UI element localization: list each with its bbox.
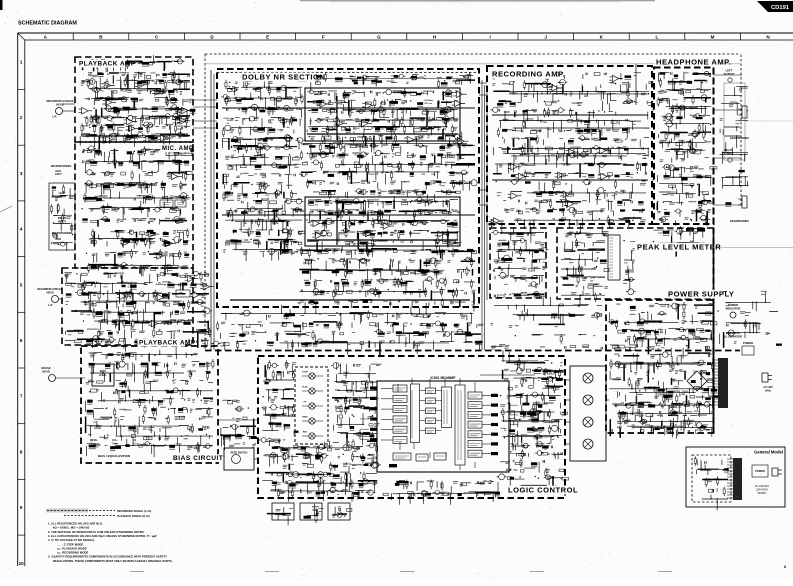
svg-text:CrO₂: CrO₂ <box>112 440 117 442</box>
svg-text:BIAS CIRCUIT: BIAS CIRCUIT <box>173 455 223 462</box>
svg-text:MIC. AMP: MIC. AMP <box>162 146 193 152</box>
svg-text:RECORD/PLAYBACK: RECORD/PLAYBACK <box>46 99 73 103</box>
svg-text:8: 8 <box>20 449 23 454</box>
svg-text:RIGHT: RIGHT <box>724 148 733 152</box>
svg-text:SCHEMATIC DIAGRAM: SCHEMATIC DIAGRAM <box>18 21 77 27</box>
svg-text:2: 2 <box>20 115 23 120</box>
svg-text:4: 4 <box>20 227 23 232</box>
svg-text:LOGIC CONTROL: LOGIC CONTROL <box>508 486 578 495</box>
svg-text:G: G <box>377 35 381 40</box>
svg-text:HEADPHONES: HEADPHONES <box>730 136 749 140</box>
svg-text:POWER: POWER <box>755 469 765 473</box>
svg-text:POWER: POWER <box>728 303 738 307</box>
svg-text:General Model: General Model <box>754 450 783 455</box>
svg-text:J102: J102 <box>55 237 61 241</box>
svg-text:OUTPUT: OUTPUT <box>723 72 734 76</box>
svg-text:CD191: CD191 <box>771 5 790 11</box>
svg-text:DOLBY NR SECTION: DOLBY NR SECTION <box>242 73 325 82</box>
svg-text:9: 9 <box>20 505 23 510</box>
svg-text:RECORDING SIGNAL (L-ch): RECORDING SIGNAL (L-ch) <box>117 509 151 513</box>
svg-text:7: 7 <box>20 394 23 399</box>
svg-text:L: L <box>655 35 658 40</box>
svg-text:INDICATOR: INDICATOR <box>726 307 741 311</box>
svg-text:PEAK LEVEL METER: PEAK LEVEL METER <box>637 243 721 252</box>
svg-text:6: 6 <box>20 338 23 343</box>
svg-text:L-R: L-R <box>52 115 57 119</box>
svg-text:L-R: L-R <box>48 303 53 307</box>
svg-text:LEFT: LEFT <box>55 172 62 176</box>
svg-text:5: 5 <box>20 282 23 287</box>
svg-text:F: F <box>322 35 325 40</box>
svg-text:MICROPHONES: MICROPHONES <box>51 164 72 168</box>
svg-text:M: M <box>711 35 715 40</box>
svg-text:REC: REC <box>303 432 308 434</box>
svg-text:PLAYBACK SIGNAL (R-ch): PLAYBACK SIGNAL (R-ch) <box>117 514 150 518</box>
svg-text:POWER: POWER <box>743 341 753 345</box>
svg-text:I: I <box>489 35 490 40</box>
svg-text:LEFT: LEFT <box>726 69 733 73</box>
svg-text:REED SWITCH: REED SWITCH <box>231 452 248 455</box>
svg-text:BIAS / EQUALIZATION: BIAS / EQUALIZATION <box>98 454 130 458</box>
svg-text:J: J <box>544 35 547 40</box>
svg-text:LN: LN <box>133 440 136 442</box>
svg-text:HEADPHONES: HEADPHONES <box>730 219 749 223</box>
svg-text:IC601 MD4968P: IC601 MD4968P <box>430 376 456 380</box>
svg-text:ERASE: ERASE <box>41 366 50 370</box>
svg-text:REGULATIONS. THESE COMPONENTS: REGULATIONS. THESE COMPONENTS MUST ONLY … <box>53 559 173 563</box>
svg-text:RECORDING AMP.: RECORDING AMP. <box>492 70 565 79</box>
svg-text:HEAD: HEAD <box>42 370 50 374</box>
svg-text:60Hz: 60Hz <box>765 390 771 393</box>
svg-text:E: E <box>266 35 269 40</box>
svg-text:RIGHT: RIGHT <box>58 216 67 220</box>
svg-text:STOP: STOP <box>302 372 308 374</box>
svg-text:1: 1 <box>20 60 23 65</box>
svg-text:PLAYBACK AMP: PLAYBACK AMP <box>79 61 136 68</box>
svg-text:METAL: METAL <box>90 439 98 442</box>
svg-text:PLAY: PLAY <box>302 386 308 389</box>
svg-text:HEAD: HEAD <box>46 292 53 295</box>
svg-text:3: 3 <box>20 171 23 176</box>
svg-text:50/60Hz: 50/60Hz <box>758 492 768 495</box>
svg-text:HEADPHONE AMP.: HEADPHONE AMP. <box>656 58 731 67</box>
svg-text:10: 10 <box>19 561 25 566</box>
svg-text:PLAYBACK AMP: PLAYBACK AMP <box>139 340 196 347</box>
svg-text:POWER SUPPLY: POWER SUPPLY <box>668 290 734 299</box>
